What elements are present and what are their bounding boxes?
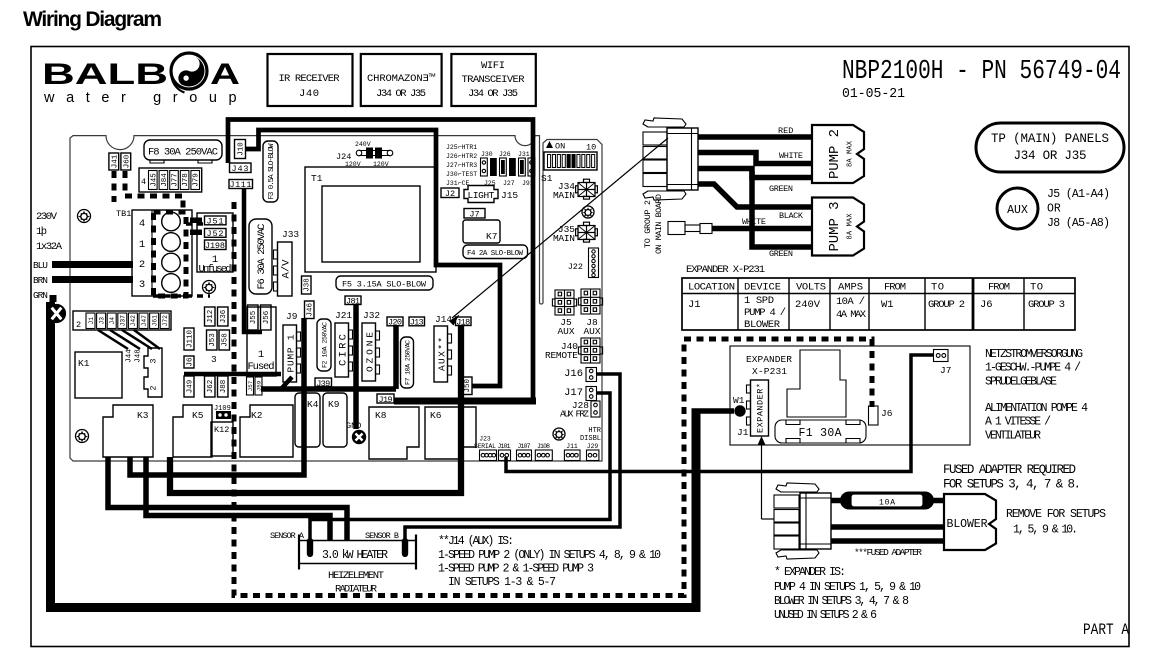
svg-text:J91: J91	[522, 180, 534, 187]
svg-text:* EXPANDER IS:: * EXPANDER IS:	[774, 566, 846, 579]
svg-text:SENSOR A: SENSOR A	[270, 531, 305, 541]
svg-text:J27⌐HTR3: J27⌐HTR3	[446, 162, 477, 169]
svg-text:J26⌐HTR2: J26⌐HTR2	[446, 153, 477, 160]
svg-text:J22: J22	[568, 262, 583, 272]
svg-text:J30: J30	[481, 151, 493, 158]
svg-text:J56: J56	[263, 310, 271, 324]
svg-text:J2: J2	[445, 189, 455, 199]
svg-text:NBP2100H - PN 56749-04: NBP2100H - PN 56749-04	[842, 57, 1121, 87]
svg-text:J101: J101	[498, 443, 511, 450]
svg-text:J40: J40	[299, 88, 319, 100]
svg-text:J39: J39	[316, 379, 330, 389]
svg-text:1 SPD: 1 SPD	[744, 295, 774, 307]
svg-text:3: 3	[149, 358, 159, 363]
svg-text:SPRUDELGEBLASE: SPRUDELGEBLASE	[985, 375, 1057, 388]
svg-text:J53: J53	[209, 333, 217, 347]
svg-text:PUMP 2: PUMP 2	[827, 129, 843, 179]
svg-text:EXPANDER X-P231: EXPANDER X-P231	[686, 264, 765, 276]
svg-text:J15: J15	[501, 190, 518, 201]
svg-text:RED: RED	[778, 126, 793, 136]
svg-text:K7: K7	[486, 231, 497, 242]
svg-text:J16: J16	[564, 368, 583, 380]
svg-text:J48: J48	[135, 349, 143, 363]
svg-text:A/V: A/V	[281, 259, 293, 279]
svg-text:J59: J59	[256, 380, 263, 391]
svg-text:F3 0.5A SLO-BLOW: F3 0.5A SLO-BLOW	[268, 143, 276, 199]
svg-text:1: 1	[258, 349, 264, 361]
svg-text:VENTILATEUR: VENTILATEUR	[985, 429, 1041, 442]
svg-text:F8 30A 250VAC: F8 30A 250VAC	[148, 147, 218, 159]
svg-text:PUMP 4 IN SETUPS 1, 5, 9 & 10: PUMP 4 IN SETUPS 1, 5, 9 & 10	[774, 581, 921, 594]
svg-text:J34 OR J35: J34 OR J35	[1014, 149, 1087, 163]
svg-text:J107: J107	[518, 443, 531, 450]
svg-text:W1: W1	[733, 395, 745, 406]
svg-text:A 1 VITESSE /: A 1 VITESSE /	[985, 416, 1051, 429]
svg-text:J13: J13	[410, 318, 424, 328]
svg-text:A: A	[210, 58, 240, 91]
svg-text:1þ: 1þ	[36, 226, 47, 238]
svg-text:BRN: BRN	[33, 275, 48, 286]
svg-text:Unfused: Unfused	[199, 264, 232, 276]
svg-text:MAIN: MAIN	[553, 233, 575, 244]
svg-text:3.0 kW HEATER: 3.0 kW HEATER	[322, 549, 388, 562]
svg-text:J1: J1	[88, 317, 95, 325]
svg-text:4A MAX: 4A MAX	[836, 309, 867, 321]
svg-text:J108: J108	[537, 443, 550, 450]
svg-text:J77: J77	[172, 173, 180, 187]
svg-text:T1: T1	[311, 173, 323, 184]
svg-text:WHITE: WHITE	[779, 151, 803, 161]
svg-text:J31: J31	[518, 151, 530, 158]
svg-text:REMOTE: REMOTE	[545, 350, 578, 361]
svg-text:3: 3	[139, 279, 145, 291]
svg-text:TO: TO	[1030, 282, 1043, 294]
svg-text:8A MAX: 8A MAX	[847, 140, 855, 167]
svg-text:J47: J47	[141, 315, 148, 327]
svg-text:10A /: 10A /	[836, 296, 865, 308]
svg-text:J19: J19	[379, 395, 393, 405]
svg-text:PART A: PART A	[1083, 621, 1130, 639]
svg-text:GRN: GRN	[33, 290, 48, 301]
svg-text:J18: J18	[456, 317, 470, 327]
svg-text:S1: S1	[541, 173, 553, 184]
svg-text:J1: J1	[688, 299, 701, 311]
svg-text:240V: 240V	[795, 299, 821, 311]
svg-text:BLACK: BLACK	[779, 211, 804, 221]
svg-text:J31⌐CE: J31⌐CE	[446, 180, 470, 187]
svg-text:***FUSED ADAPTER: ***FUSED ADAPTER	[854, 547, 922, 558]
svg-text:LOCATION: LOCATION	[688, 282, 735, 294]
svg-text:IR RECEIVER: IR RECEIVER	[279, 73, 341, 85]
svg-text:F5 3.15A SLO-BLOW: F5 3.15A SLO-BLOW	[342, 280, 427, 290]
svg-text:J9: J9	[286, 311, 298, 322]
svg-text:240V: 240V	[355, 141, 371, 148]
svg-text:WIFI: WIFI	[481, 60, 505, 72]
svg-text:MAIN: MAIN	[553, 190, 575, 201]
svg-text:REMOVE FOR SETUPS: REMOVE FOR SETUPS	[1006, 508, 1106, 521]
svg-text:ON: ON	[555, 142, 565, 152]
svg-text:J81: J81	[346, 296, 360, 306]
svg-text:J88: J88	[220, 380, 228, 394]
svg-text:J27: J27	[503, 180, 515, 187]
svg-text:GROUP 3: GROUP 3	[1028, 299, 1065, 311]
svg-text:BLOWER: BLOWER	[744, 319, 781, 331]
svg-text:4: 4	[141, 177, 146, 187]
svg-text:K2: K2	[251, 410, 263, 421]
svg-text:AUX FRZ: AUX FRZ	[560, 409, 589, 420]
svg-text:2: 2	[149, 385, 159, 390]
svg-text:TO GROUP 2: TO GROUP 2	[643, 200, 653, 248]
svg-text:WHITE: WHITE	[742, 217, 766, 227]
svg-text:F7 10A 250VAC: F7 10A 250VAC	[404, 340, 411, 385]
svg-text:F4 2A SLO-BLOW: F4 2A SLO-BLOW	[467, 250, 523, 258]
svg-text:J60: J60	[123, 154, 131, 168]
svg-text:PUMP 3: PUMP 3	[827, 202, 843, 252]
svg-text:Fused: Fused	[248, 361, 275, 373]
svg-text:J36: J36	[220, 309, 228, 323]
svg-text:SERIAL: SERIAL	[474, 443, 496, 450]
svg-text:J6: J6	[881, 408, 893, 419]
svg-text:TB1: TB1	[116, 209, 131, 219]
svg-text:BLOWER IN SETUPS 3, 4, 7 & 8: BLOWER IN SETUPS 3, 4, 7 & 8	[774, 595, 909, 608]
svg-text:FROM: FROM	[988, 282, 1010, 294]
svg-text:K3: K3	[137, 410, 149, 421]
svg-text:EXPANDER*: EXPANDER*	[756, 383, 766, 433]
svg-text:J7: J7	[940, 365, 951, 376]
svg-text:J14: J14	[435, 314, 452, 325]
svg-text:J79: J79	[193, 173, 201, 187]
svg-text:BLOWER: BLOWER	[947, 518, 988, 531]
svg-text:1-GESCHW.-PUMPE 4 /: 1-GESCHW.-PUMPE 4 /	[985, 362, 1081, 375]
svg-text:230V: 230V	[36, 211, 58, 223]
svg-text:F2 10A 250VAC: F2 10A 250VAC	[321, 322, 328, 368]
svg-text:GREEN: GREEN	[769, 184, 793, 194]
svg-text:2: 2	[76, 320, 81, 330]
svg-text:AMPS: AMPS	[838, 282, 863, 294]
svg-text:CHROMAZONƎ™: CHROMAZONƎ™	[367, 73, 436, 85]
svg-text:3: 3	[211, 354, 217, 365]
svg-text:J34 OR J35: J34 OR J35	[376, 88, 426, 100]
svg-text:J51: J51	[207, 217, 224, 227]
svg-text:F6 30A 250VAC: F6 30A 250VAC	[256, 224, 268, 290]
svg-text:2: 2	[139, 259, 145, 271]
svg-text:J46: J46	[307, 302, 315, 316]
svg-text:F1 30A: F1 30A	[799, 427, 842, 440]
svg-text:J20: J20	[388, 318, 402, 328]
svg-text:PUMP 4 /: PUMP 4 /	[744, 307, 786, 319]
svg-text:J44: J44	[126, 349, 134, 363]
svg-text:4: 4	[139, 218, 145, 230]
svg-text:EXPANDER: EXPANDER	[746, 354, 792, 365]
svg-text:J198: J198	[205, 241, 225, 251]
svg-text:J33: J33	[282, 229, 299, 240]
svg-text:TRANSCEIVER: TRANSCEIVER	[462, 74, 526, 86]
svg-text:J58: J58	[222, 333, 230, 347]
svg-text:X-P231: X-P231	[752, 366, 787, 377]
svg-text:J38: J38	[304, 278, 312, 292]
svg-text:TP (MAIN) PANELS: TP (MAIN) PANELS	[991, 132, 1109, 146]
svg-text:J111: J111	[230, 180, 252, 190]
svg-text:J45: J45	[150, 173, 158, 187]
svg-text:J4: J4	[109, 317, 116, 325]
svg-text:UNUSED IN SETUPS 2 & 6: UNUSED IN SETUPS 2 & 6	[774, 609, 877, 622]
svg-text:TO: TO	[931, 282, 944, 294]
svg-text:J6: J6	[187, 357, 195, 367]
svg-text:GROUP 2: GROUP 2	[928, 299, 965, 311]
svg-text:GREEN: GREEN	[769, 249, 793, 259]
svg-text:SENSOR B: SENSOR B	[365, 531, 399, 541]
svg-text:HEIZELEMENT: HEIZELEMENT	[328, 570, 384, 582]
svg-text:Wiring Diagram: Wiring Diagram	[23, 8, 162, 31]
svg-text:01-05-21: 01-05-21	[842, 87, 905, 102]
svg-text:J32: J32	[363, 310, 380, 321]
svg-text:PUMP 1: PUMP 1	[286, 334, 297, 372]
svg-text:J29: J29	[587, 443, 599, 450]
svg-text:DISBL: DISBL	[580, 435, 601, 443]
svg-text:J37: J37	[120, 315, 127, 327]
svg-text:J52: J52	[207, 229, 224, 239]
svg-text:1-SPEED PUMP 2 (ONLY) IN SETUP: 1-SPEED PUMP 2 (ONLY) IN SETUPS 4, 8, 9 …	[438, 549, 661, 562]
svg-text:10: 10	[586, 143, 596, 153]
svg-text:water group: water group	[43, 90, 244, 106]
svg-text:J84: J84	[161, 173, 169, 187]
svg-text:**J14 (AUX) IS:: **J14 (AUX) IS:	[438, 535, 514, 548]
svg-text:J3: J3	[98, 317, 105, 325]
svg-text:J30⌐TEST: J30⌐TEST	[446, 171, 477, 178]
svg-text:DEVICE: DEVICE	[744, 282, 781, 294]
svg-text:OR: OR	[1047, 203, 1061, 216]
svg-text:GND: GND	[346, 421, 361, 431]
svg-text:J23: J23	[479, 436, 491, 443]
svg-text:J110: J110	[187, 330, 195, 348]
svg-text:J17: J17	[564, 387, 583, 399]
svg-text:J6: J6	[980, 299, 993, 311]
svg-text:NETZSTROMVERSORGUNG: NETZSTROMVERSORGUNG	[985, 348, 1083, 361]
svg-text:J1: J1	[737, 427, 749, 438]
svg-text:HTR: HTR	[588, 427, 601, 435]
svg-text:J8 (A5-A8): J8 (A5-A8)	[1047, 217, 1110, 230]
svg-text:8A MAX: 8A MAX	[847, 213, 855, 240]
svg-text:FOR SETUPS 3, 4, 7 & 8.: FOR SETUPS 3, 4, 7 & 8.	[943, 478, 1081, 492]
svg-text:J12: J12	[207, 310, 215, 324]
svg-text:J55: J55	[250, 310, 258, 324]
svg-text:J62: J62	[207, 380, 215, 394]
svg-text:ON MAIN BOARD: ON MAIN BOARD	[654, 194, 664, 254]
svg-text:ALIMENTATION POMPE 4: ALIMENTATION POMPE 4	[985, 402, 1088, 415]
svg-text:AUX: AUX	[1007, 204, 1028, 217]
svg-text:K8: K8	[375, 410, 387, 421]
svg-text:K1: K1	[78, 358, 90, 369]
svg-text:K4: K4	[307, 399, 319, 410]
svg-text:J50: J50	[464, 378, 472, 392]
svg-text:J43: J43	[232, 164, 249, 174]
svg-text:10A: 10A	[879, 499, 895, 508]
svg-text:K12: K12	[214, 425, 229, 435]
svg-text:FUSED ADAPTER REQUIRED: FUSED ADAPTER REQUIRED	[943, 463, 1076, 477]
svg-text:AUX**: AUX**	[437, 337, 448, 371]
svg-text:J72: J72	[162, 315, 169, 327]
svg-text:1: 1	[139, 239, 145, 251]
svg-text:J21: J21	[335, 310, 352, 321]
svg-text:J7: J7	[469, 210, 479, 220]
svg-text:J57: J57	[247, 380, 254, 391]
svg-text:AUX: AUX	[583, 326, 600, 337]
svg-text:J49: J49	[187, 380, 195, 394]
svg-text:J42: J42	[130, 315, 137, 327]
svg-text:J61: J61	[151, 315, 158, 327]
svg-text:W1: W1	[881, 299, 894, 311]
svg-text:J78: J78	[182, 173, 190, 187]
svg-text:K6: K6	[430, 410, 442, 421]
svg-text:BALB: BALB	[42, 58, 168, 91]
svg-text:BLU: BLU	[33, 260, 48, 271]
svg-text:J25⌐HTR1: J25⌐HTR1	[446, 144, 477, 151]
svg-text:VOLTS: VOLTS	[796, 282, 826, 294]
svg-text:FROM: FROM	[884, 282, 906, 294]
svg-text:J41: J41	[111, 154, 119, 168]
svg-text:1x32A: 1x32A	[36, 241, 63, 253]
svg-text:J26: J26	[499, 151, 511, 158]
svg-text:J11: J11	[566, 443, 578, 450]
svg-text:LIGHT: LIGHT	[468, 190, 495, 201]
svg-text:K9: K9	[328, 399, 340, 410]
svg-text:K5: K5	[192, 410, 204, 421]
svg-text:J34 OR J35: J34 OR J35	[468, 88, 518, 100]
svg-text:J5 (A1-A4): J5 (A1-A4)	[1047, 188, 1110, 201]
svg-text:J10: J10	[238, 142, 246, 156]
svg-text:IN SETUPS 1-3 & 5-7: IN SETUPS 1-3 & 5-7	[448, 576, 556, 589]
svg-text:AUX: AUX	[557, 326, 574, 337]
svg-text:1-SPEED PUMP 2 & 1-SPEED PUMP: 1-SPEED PUMP 2 & 1-SPEED PUMP 3	[438, 563, 594, 576]
svg-text:1, 5, 9 & 10.: 1, 5, 9 & 10.	[1013, 524, 1078, 537]
